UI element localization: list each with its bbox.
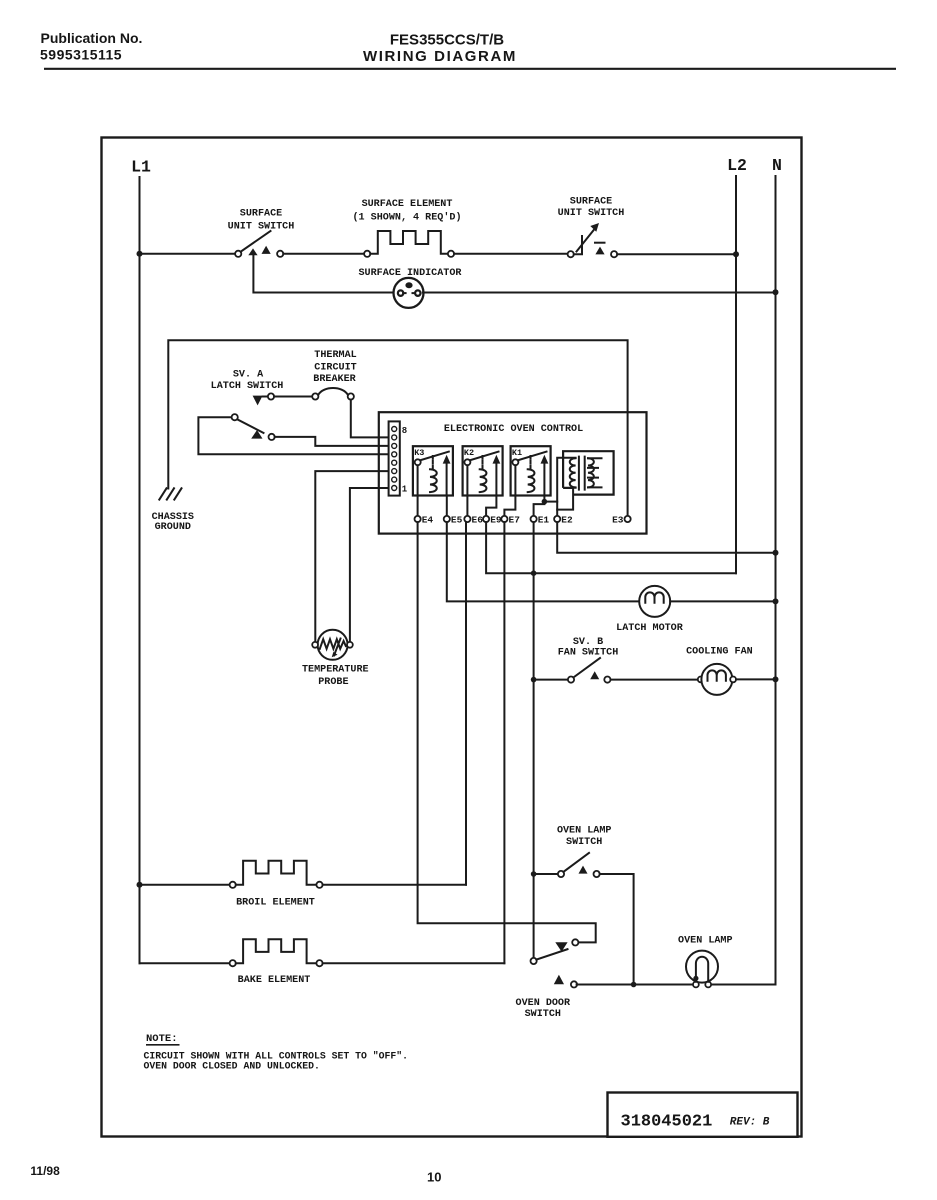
label SURFACE UNIT SWITCH right: [558, 196, 625, 219]
svg-text:E5: E5: [451, 515, 463, 526]
svg-text:FES355CCS/T/B: FES355CCS/T/B: [390, 32, 504, 49]
svg-text:OVEN DOOR CLOSED AND UNLOCKED.: OVEN DOOR CLOSED AND UNLOCKED.: [144, 1060, 320, 1071]
wire N bus: [775, 176, 777, 985]
header publication number: [40, 30, 142, 63]
wire breaker to connector pin 7: [351, 400, 389, 438]
junction indicator / N: [773, 289, 779, 295]
switch SURFACE UNIT SWITCH right: [568, 223, 618, 257]
svg-text:E3: E3: [612, 515, 624, 526]
svg-text:5995315115: 5995315115: [40, 47, 122, 63]
svg-text:TEMPERATURE: TEMPERATURE: [302, 665, 369, 676]
svg-text:COOLING FAN: COOLING FAN: [686, 647, 753, 658]
broil element: [140, 861, 467, 888]
wire latch lower contact to connector pin 6: [275, 437, 389, 446]
switch SURFACE UNIT SWITCH left: [235, 231, 283, 257]
svg-text:SURFACE: SURFACE: [240, 208, 282, 219]
wire temperature probe left to connector pin 3: [315, 471, 388, 641]
wire element to right switch: [454, 253, 567, 255]
wire cooling fan to N: [736, 678, 773, 680]
svg-text:SWITCH: SWITCH: [566, 837, 602, 848]
wire latch common loop to connector pin 5: [198, 417, 388, 454]
wire K3 contact to E5: [446, 496, 448, 516]
svg-text:1: 1: [402, 484, 408, 494]
terminal E9: [483, 516, 489, 522]
label OVEN DOOR SWITCH: [516, 998, 571, 1020]
wire E9 run to L2: [486, 522, 736, 573]
label TEMPERATURE PROBE: [302, 665, 369, 689]
svg-text:PROBE: PROBE: [318, 677, 348, 688]
svg-text:E9: E9: [490, 515, 502, 526]
wire K2 common to E6: [466, 465, 468, 516]
header rule: [44, 68, 896, 70]
switch oven lamp switch: [558, 853, 600, 877]
wire K1 contact to E1: [534, 496, 545, 516]
junction E9 / E1 wires: [531, 570, 537, 576]
svg-text:8: 8: [402, 426, 407, 436]
svg-text:BAKE ELEMENT: BAKE ELEMENT: [238, 975, 311, 986]
svg-text:SURFACE INDICATOR: SURFACE INDICATOR: [359, 268, 463, 279]
svg-text:THERMAL: THERMAL: [314, 350, 356, 361]
surface indicator lamp: [394, 278, 424, 308]
svg-text:10: 10: [427, 1170, 441, 1185]
svg-text:L1: L1: [131, 158, 151, 177]
switch SV. A latch switch upper contact: [253, 393, 313, 405]
svg-text:BROIL ELEMENT: BROIL ELEMENT: [236, 897, 315, 908]
svg-text:ELECTRONIC OVEN CONTROL: ELECTRONIC OVEN CONTROL: [444, 424, 583, 435]
wire E4 run to oven door switch NC: [418, 522, 596, 942]
svg-text:SURFACE ELEMENT: SURFACE ELEMENT: [362, 199, 453, 210]
terminal E3: [625, 516, 631, 522]
relay K3: [413, 446, 453, 495]
terminal E1: [531, 516, 537, 522]
terminal E6: [464, 516, 470, 522]
terminal E2: [554, 516, 560, 522]
wire left switch to element: [283, 253, 364, 255]
wire lamp switch row left: [534, 873, 558, 875]
wire E5 run to latch motor: [447, 522, 639, 601]
wire chassis ground / E3 net: [168, 340, 627, 516]
wire right switch to L2: [617, 253, 733, 255]
label SV. A LATCH SWITCH: [211, 369, 284, 391]
junction E1 wire / oven lamp switch row: [531, 871, 537, 877]
terminal E4: [415, 516, 421, 522]
junction E2 / N: [773, 550, 779, 556]
main diagram border: [102, 138, 802, 1137]
svg-text:E1: E1: [538, 515, 550, 526]
svg-text:SV. B: SV. B: [573, 637, 603, 648]
wire L2 bus: [735, 176, 737, 573]
EOC connector strip: [389, 421, 400, 495]
svg-text:CIRCUIT: CIRCUIT: [314, 363, 356, 374]
relay K1: [511, 446, 551, 495]
junction latch motor / N: [773, 598, 779, 604]
svg-text:N: N: [772, 156, 782, 175]
svg-text:LATCH MOTOR: LATCH MOTOR: [616, 623, 684, 634]
svg-text:E4: E4: [422, 515, 434, 526]
terminal E5: [444, 516, 450, 522]
svg-text:K1: K1: [512, 448, 522, 458]
transformer T1: [563, 451, 614, 494]
svg-text:NOTE:: NOTE:: [146, 1033, 178, 1045]
svg-text:K3: K3: [414, 448, 424, 458]
svg-text:Publication No.: Publication No.: [41, 30, 143, 46]
svg-text:SV. A: SV. A: [233, 369, 264, 380]
electronic oven control box: [379, 412, 647, 533]
latch motor: [639, 586, 670, 617]
svg-text:L2: L2: [727, 156, 747, 175]
cooling fan motor: [698, 664, 736, 695]
latch switch common and blade: [232, 414, 275, 440]
svg-text:WIRING DIAGRAM: WIRING DIAGRAM: [363, 48, 517, 65]
svg-text:E2: E2: [561, 515, 573, 526]
label SW. B FAN SWITCH: [558, 637, 619, 659]
wire E1 run to oven door switch: [533, 522, 535, 958]
label CHASSIS GROUND: [152, 512, 194, 533]
wire K2 contact to E9: [486, 496, 496, 516]
temperature probe: [312, 630, 353, 660]
terminal E7: [501, 516, 507, 522]
svg-text:318045021: 318045021: [621, 1113, 713, 1132]
relay K2: [463, 446, 503, 495]
junction L1 / broil row: [137, 882, 143, 888]
svg-text:OVEN DOOR: OVEN DOOR: [516, 998, 571, 1009]
svg-text:UNIT SWITCH: UNIT SWITCH: [228, 222, 295, 233]
label OVEN LAMP SWITCH: [557, 825, 612, 848]
junction E1 wire / fan row: [531, 677, 537, 683]
svg-text:REV: B: REV: B: [730, 1117, 770, 1129]
wire L1 bus: [139, 177, 141, 963]
svg-text:LATCH SWITCH: LATCH SWITCH: [211, 381, 284, 392]
junction top row / L2: [733, 251, 739, 257]
wire transformer primary to E2 line: [557, 458, 563, 516]
oven lamp: [686, 951, 718, 988]
wire temperature probe right to connector pin 1: [350, 488, 389, 641]
wire top row L1 to left switch: [140, 253, 236, 255]
bake element: [140, 939, 505, 966]
oven door switch: [531, 939, 579, 987]
wire K1 common to E7: [504, 465, 515, 516]
svg-text:OVEN LAMP: OVEN LAMP: [557, 825, 612, 836]
label SURFACE UNIT SWITCH left: [228, 208, 295, 232]
svg-text:(1 SHOWN, 4 REQ'D): (1 SHOWN, 4 REQ'D): [352, 212, 461, 224]
wire fan switch to cooling fan: [611, 679, 698, 681]
wire E6 run to broil element: [465, 522, 467, 885]
svg-text:E7: E7: [509, 515, 521, 526]
svg-text:K2: K2: [464, 448, 474, 458]
label THERMAL CIRCUIT BREAKER: [313, 350, 356, 385]
wire E2 run to N: [557, 522, 772, 553]
svg-text:OVEN LAMP: OVEN LAMP: [678, 936, 733, 947]
thermal circuit breaker: [312, 388, 354, 400]
svg-text:GROUND: GROUND: [155, 522, 191, 533]
wire oven lamp row: [577, 984, 776, 986]
wire lamp switch to lamp row: [600, 874, 634, 982]
wire transformer bottom to E2 line: [557, 488, 573, 510]
svg-text:E6: E6: [472, 515, 484, 526]
junction cooling fan / N: [773, 676, 779, 682]
junction lamp switch wire / lamp row: [631, 982, 637, 988]
wire junction to E2 line: [544, 501, 557, 503]
wire E7 run to bake element: [503, 522, 505, 963]
junction K1 contact / E2 link: [542, 499, 548, 505]
chassis ground symbol: [159, 488, 181, 499]
svg-text:SURFACE: SURFACE: [570, 196, 612, 207]
part number plate: [608, 1093, 798, 1137]
svg-text:11/98: 11/98: [30, 1164, 60, 1178]
svg-text:FAN SWITCH: FAN SWITCH: [558, 648, 619, 659]
label SURFACE ELEMENT: [352, 199, 461, 223]
svg-text:UNIT SWITCH: UNIT SWITCH: [558, 208, 625, 219]
wire fan row left: [534, 679, 568, 681]
wire latch motor to N: [670, 600, 772, 602]
wire indicator to N: [423, 292, 773, 294]
surface element: [364, 231, 454, 257]
switch SW. B fan switch: [568, 658, 611, 683]
junction L1 / top row: [137, 251, 143, 257]
svg-text:BREAKER: BREAKER: [313, 374, 356, 385]
wire surface indicator branch: [253, 255, 393, 293]
header title: [363, 32, 517, 66]
svg-text:SWITCH: SWITCH: [525, 1009, 561, 1020]
wire K3 common to E4: [417, 465, 419, 516]
